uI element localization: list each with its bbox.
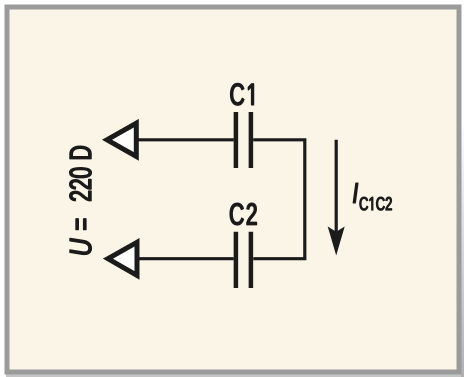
capacitor C1 label: [231, 84, 254, 106]
current arrow head: [328, 227, 345, 256]
source label D (rotated): [70, 146, 91, 158]
source terminal bottom (triangle): [108, 242, 137, 275]
capacitor C1 left plate: [234, 112, 239, 168]
wire bottom-left segment: [135, 257, 234, 260]
current label subscript C1C2: [360, 197, 392, 210]
source label = (rotated): [76, 219, 86, 230]
current arrow shaft: [335, 140, 338, 236]
source label 220 (rotated): [70, 168, 92, 201]
frame shadow right edge: [461, 120, 464, 377]
source label U (italic, rotated): [70, 238, 91, 254]
wire top-left segment: [136, 138, 234, 141]
capacitor C2 label: [230, 203, 256, 225]
source terminal top (triangle): [107, 123, 136, 156]
capacitor C2 right plate: [249, 232, 254, 288]
capacitor C1 right plate: [249, 112, 254, 168]
capacitor C2 left plate: [234, 232, 239, 288]
current label I (italic): [353, 183, 357, 203]
wire top-right, right vertical and bottom-right segments: [253, 140, 305, 259]
frame shadow bottom edge: [6, 375, 462, 377]
